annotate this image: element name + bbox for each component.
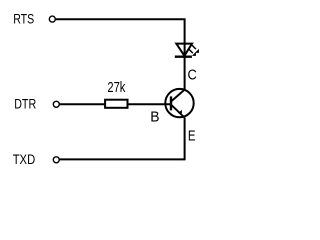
transistor emitter arrowhead [178,110,182,114]
LED anode triangle [176,44,192,56]
wire resistor to base [129,103,171,105]
svg-text:DTR: DTR [14,96,36,112]
svg-text:E: E [188,128,196,145]
LED cathode bar [175,56,192,58]
wire DTR to resistor [60,103,105,105]
transistor collector stroke [172,90,185,101]
transistor body circle [165,89,193,117]
transistor emitter stroke [172,105,185,117]
terminal RTS [49,16,55,22]
wire collector (LED cathode to transistor) [184,43,186,90]
LED light arrow 2 [189,49,193,53]
svg-text:C: C [188,68,197,84]
resistor 27k [105,100,127,108]
transistor base bar [170,96,172,110]
svg-text:B: B [150,109,159,126]
terminal TXD [53,157,59,163]
LED D1 [175,44,199,57]
svg-text:27k: 27k [107,79,125,96]
transistor Q1 NPN [165,89,193,118]
wire emitter to bottom rail [184,118,186,161]
LED light arrow 1 [192,45,196,49]
terminal DTR [53,101,59,107]
svg-text:TXD: TXD [13,151,36,167]
wire TXD to emitter [60,158,185,160]
svg-text:RTS: RTS [13,11,34,27]
wire RTS to top-right corner [56,19,185,43]
